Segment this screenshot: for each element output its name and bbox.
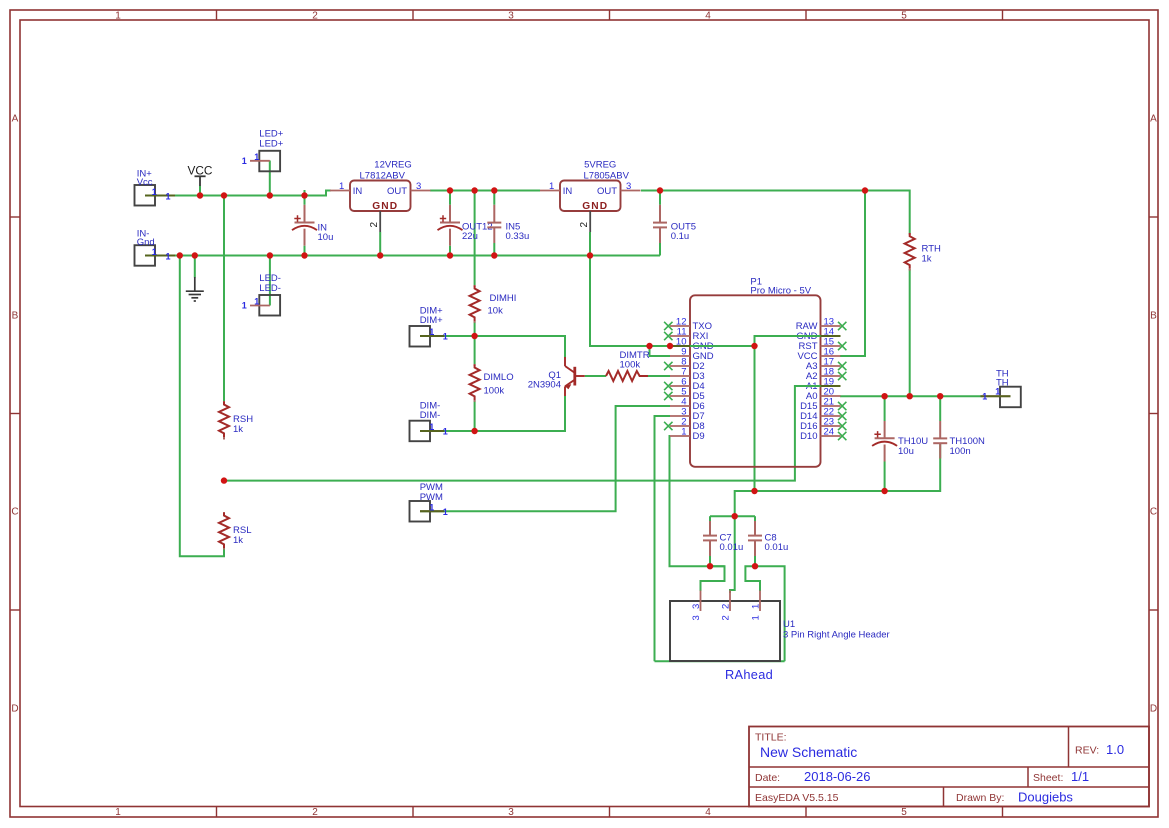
svg-text:2N3904: 2N3904 bbox=[528, 379, 561, 390]
wire over P1 pin19 overlap2 bbox=[821, 385, 841, 387]
svg-text:D9: D9 bbox=[693, 431, 705, 442]
wire net PWM to P1 pin4 D6 bbox=[420, 406, 670, 511]
wire P1 pin9 gnd stub bbox=[650, 346, 671, 356]
svg-text:D: D bbox=[1150, 704, 1157, 715]
resistor RTH 1k bbox=[909, 233, 911, 235]
svg-text:GND: GND bbox=[372, 201, 398, 212]
wire net A0 to TH bbox=[840, 395, 981, 397]
svg-text:2: 2 bbox=[312, 807, 318, 818]
svg-text:A: A bbox=[1150, 114, 1157, 125]
resistor DIMLO 100k bbox=[474, 364, 476, 366]
svg-text:1: 1 bbox=[982, 392, 987, 402]
wire OUT5 cap top stub bbox=[659, 191, 661, 205]
svg-text:VCC: VCC bbox=[188, 164, 213, 178]
wire RSH from Vcc rail bbox=[223, 196, 225, 402]
connector LED+ box bbox=[259, 151, 280, 172]
connector IN- pin 1 bbox=[145, 255, 175, 257]
svg-text:TITLE:: TITLE: bbox=[755, 732, 787, 744]
wire LED+ drop bbox=[269, 161, 271, 196]
svg-text:1: 1 bbox=[443, 332, 448, 342]
wire 5VREG pin2 to rail bbox=[589, 232, 591, 256]
svg-text:10u: 10u bbox=[898, 446, 914, 457]
svg-text:12VREG: 12VREG bbox=[374, 160, 412, 171]
svg-text:1: 1 bbox=[115, 807, 121, 818]
wire TH10U top stub bbox=[884, 396, 886, 421]
wire over P1 pin19 bbox=[821, 385, 841, 387]
svg-text:1k: 1k bbox=[233, 535, 243, 546]
wire C7 C8 top tee bbox=[710, 515, 755, 517]
svg-text:2018-06-26: 2018-06-26 bbox=[804, 769, 871, 784]
wire P1 pin14 gnd through body bbox=[755, 336, 841, 491]
svg-text:100k: 100k bbox=[620, 360, 641, 371]
svg-text:1: 1 bbox=[152, 187, 157, 197]
svg-text:Pro Micro - 5V: Pro Micro - 5V bbox=[750, 286, 811, 297]
svg-text:L7812ABV: L7812ABV bbox=[360, 170, 406, 181]
connector DIM+ pin 1 bbox=[420, 335, 444, 337]
svg-text:Drawn By:: Drawn By: bbox=[956, 792, 1004, 804]
svg-text:2: 2 bbox=[721, 615, 732, 620]
svg-text:1: 1 bbox=[166, 191, 171, 201]
svg-text:1: 1 bbox=[429, 327, 434, 337]
connector PWM pin 1 bbox=[420, 510, 444, 512]
wire over P1 pin19 name bbox=[795, 385, 821, 387]
wire over TH pin bbox=[981, 395, 1011, 397]
svg-text:1: 1 bbox=[429, 502, 434, 512]
wire over P1 pin14 bbox=[821, 335, 841, 337]
connector TH pin 1 bbox=[981, 395, 1011, 397]
svg-text:2: 2 bbox=[312, 10, 318, 21]
svg-text:1: 1 bbox=[254, 297, 259, 307]
wire net D9 down bbox=[670, 436, 725, 566]
wire over DIM+ pin bbox=[420, 335, 444, 337]
svg-text:3: 3 bbox=[508, 10, 514, 21]
voltage regulator 5VREG L7805ABV bbox=[560, 181, 621, 212]
svg-text:B: B bbox=[1150, 311, 1157, 322]
wire IN cap top stub bbox=[304, 190, 306, 205]
svg-text:Sheet:: Sheet: bbox=[1033, 772, 1063, 784]
svg-text:1: 1 bbox=[254, 152, 259, 162]
svg-text:3: 3 bbox=[691, 604, 702, 609]
svg-text:5: 5 bbox=[901, 10, 907, 21]
svg-text:1: 1 bbox=[995, 387, 1000, 397]
wire IN5 cap bottom stub bbox=[493, 243, 495, 256]
svg-text:100n: 100n bbox=[950, 446, 971, 457]
resistor DIMHI 10k bbox=[474, 285, 476, 287]
connector DIM+ box bbox=[410, 326, 431, 347]
svg-text:1: 1 bbox=[751, 604, 762, 609]
voltage regulator 12VREG L7812ABV bbox=[350, 181, 411, 212]
wire DIMTR to P1 pin7 D3 bbox=[648, 375, 670, 377]
svg-text:0.1u: 0.1u bbox=[671, 231, 690, 242]
wire C8 top stub bbox=[754, 516, 756, 521]
svg-text:B: B bbox=[12, 311, 19, 322]
svg-text:1: 1 bbox=[152, 247, 157, 257]
svg-text:DIMLO: DIMLO bbox=[484, 372, 514, 383]
capacitor C7 0.01u bbox=[709, 521, 711, 536]
resistor RSL 1k bbox=[223, 512, 225, 514]
connector PWM box bbox=[410, 501, 431, 522]
svg-text:10k: 10k bbox=[488, 306, 504, 317]
svg-text:3: 3 bbox=[508, 807, 514, 818]
connector IN+ box bbox=[135, 185, 156, 206]
wire C8 to U1 pin1 staircase bbox=[745, 566, 760, 591]
connector LED+ pin 1 bbox=[250, 160, 270, 162]
connector LED- box bbox=[259, 295, 280, 316]
wire net DIM+ to Q1 collector bbox=[420, 336, 565, 358]
svg-text:REV:: REV: bbox=[1075, 745, 1099, 757]
svg-text:D: D bbox=[11, 704, 18, 715]
svg-text:C: C bbox=[11, 507, 18, 518]
svg-text:EasyEDA V5.5.15: EasyEDA V5.5.15 bbox=[755, 792, 839, 804]
svg-text:IN: IN bbox=[563, 186, 573, 197]
connector IN- box bbox=[135, 245, 156, 266]
capacitor IN5 0.33u bbox=[493, 205, 495, 223]
wire net D7 down bbox=[655, 416, 671, 661]
wire 5V to P1 VCC pin16 bbox=[840, 191, 865, 357]
wire over P1 pin14 overlap2 bbox=[821, 335, 841, 337]
svg-text:0.33u: 0.33u bbox=[506, 231, 530, 242]
capacitor TH10U 10u bbox=[884, 421, 886, 438]
wire TH100N top stub bbox=[939, 396, 941, 421]
IC P1 right pins 13..24 bbox=[796, 317, 847, 443]
wire OUT12 cap top stub bbox=[449, 191, 451, 205]
svg-text:1: 1 bbox=[115, 10, 121, 21]
wire ground symbol stub bbox=[194, 256, 196, 278]
wire Q1 base to DIMTR bbox=[585, 375, 606, 377]
wire DIMHI bottom stub bbox=[474, 321, 476, 336]
title block frame bbox=[749, 727, 1149, 807]
svg-text:0.01u: 0.01u bbox=[765, 542, 789, 553]
svg-text:1: 1 bbox=[242, 156, 247, 166]
wire Gnd left drop to RSL bbox=[180, 256, 224, 557]
svg-text:1: 1 bbox=[443, 427, 448, 437]
IC P1 body bbox=[690, 295, 821, 467]
wire 12V to DIMHI vertical bbox=[474, 191, 476, 286]
svg-text:3: 3 bbox=[626, 181, 631, 192]
wire TH10U bottom stub bbox=[884, 462, 886, 492]
svg-text:100k: 100k bbox=[484, 386, 505, 397]
wire over DIM- pin bbox=[420, 430, 444, 432]
svg-text:Dougiebs: Dougiebs bbox=[1018, 790, 1073, 805]
svg-text:Date:: Date: bbox=[755, 772, 780, 784]
wire net 5V rail bbox=[641, 191, 910, 234]
svg-text:4: 4 bbox=[705, 807, 711, 818]
header U1 box bbox=[670, 601, 780, 661]
wire VCC flag stub bbox=[199, 186, 201, 196]
wire LED- drop bbox=[269, 256, 271, 306]
svg-text:4: 4 bbox=[705, 10, 711, 21]
svg-text:C: C bbox=[1150, 507, 1157, 518]
svg-text:DIMHI: DIMHI bbox=[490, 293, 517, 304]
wire over PWM pin bbox=[420, 510, 444, 512]
svg-text:24: 24 bbox=[824, 427, 835, 438]
svg-text:GND: GND bbox=[582, 201, 608, 212]
wire RTH bottom to A0 net bbox=[909, 269, 911, 396]
svg-text:1: 1 bbox=[339, 181, 344, 192]
capacitor TH100N 100n bbox=[939, 421, 941, 438]
svg-text:1: 1 bbox=[751, 615, 762, 620]
ground symbol bbox=[194, 277, 196, 291]
wire over IN+ pin bbox=[145, 195, 175, 197]
wire 12VREG pin2 to rail bbox=[379, 232, 381, 256]
wire OUT5 cap bottom stub bbox=[659, 243, 661, 256]
svg-text:2: 2 bbox=[579, 222, 590, 228]
wire C8 bottom to right vertical bbox=[755, 566, 785, 661]
svg-text:2: 2 bbox=[721, 604, 732, 609]
svg-text:5: 5 bbox=[901, 807, 907, 818]
wire DIMLO top stub bbox=[474, 336, 476, 364]
IC P1 left pins 12..1 bbox=[664, 317, 714, 443]
wire C7 to U1 pin3 staircase bbox=[701, 566, 725, 591]
svg-text:New Schematic: New Schematic bbox=[760, 744, 857, 760]
wire net DIM- to Q1 emitter bbox=[420, 396, 565, 431]
svg-text:OUT: OUT bbox=[597, 186, 617, 197]
wire gnd bottom rail bbox=[735, 444, 941, 517]
svg-text:DIM+: DIM+ bbox=[420, 315, 443, 326]
wire C7 top stub bbox=[709, 516, 711, 521]
wire net Gnd input rail bbox=[145, 255, 660, 257]
wire gnd to U1 pin2 bbox=[730, 516, 735, 593]
svg-text:A: A bbox=[12, 114, 19, 125]
svg-text:L7805ABV: L7805ABV bbox=[584, 170, 630, 181]
connector DIM- box bbox=[410, 421, 431, 442]
capacitor OUT5 0.1u bbox=[659, 205, 661, 223]
header U1 pins 3 2 1 bbox=[691, 591, 762, 621]
svg-text:1: 1 bbox=[429, 422, 434, 432]
svg-text:LED+: LED+ bbox=[259, 139, 283, 150]
wire OUT12 cap bottom stub bbox=[449, 246, 451, 256]
svg-text:3: 3 bbox=[691, 615, 702, 620]
svg-text:1: 1 bbox=[549, 181, 554, 192]
svg-text:PWM: PWM bbox=[420, 492, 443, 503]
wire over P1 pin10 bbox=[670, 345, 690, 347]
svg-text:3: 3 bbox=[416, 181, 421, 192]
svg-text:1: 1 bbox=[681, 427, 686, 438]
wire C8 bottom stub bbox=[754, 556, 756, 566]
capacitor C8 0.01u bbox=[754, 521, 756, 536]
svg-text:0.01u: 0.01u bbox=[720, 542, 744, 553]
svg-text:10u: 10u bbox=[318, 232, 334, 243]
connector DIM- pin 1 bbox=[420, 430, 444, 432]
svg-text:1/1: 1/1 bbox=[1071, 769, 1089, 784]
svg-text:LED-: LED- bbox=[259, 283, 281, 294]
svg-text:IN: IN bbox=[353, 186, 363, 197]
wire over P1 gnd pin10 name bbox=[690, 345, 755, 347]
wire over P1 pin14 name bbox=[755, 335, 821, 337]
transistor Q1 2N3904 bbox=[564, 357, 566, 366]
wire hidden along U1 bottom bbox=[655, 660, 785, 662]
svg-text:1: 1 bbox=[166, 251, 171, 261]
capacitor OUT12 22u bbox=[449, 205, 451, 223]
svg-text:D10: D10 bbox=[800, 431, 817, 442]
wire IN cap bottom stub bbox=[304, 246, 306, 256]
wire GND rail down to P1 pin10 bbox=[590, 256, 755, 347]
connector LED- pin 1 bbox=[250, 305, 270, 307]
svg-text:1k: 1k bbox=[233, 424, 243, 435]
svg-text:1: 1 bbox=[242, 301, 247, 311]
connector IN+ pin 1 bbox=[145, 195, 175, 197]
wire net 12V from regulator out bbox=[430, 190, 540, 192]
svg-text:1k: 1k bbox=[922, 254, 932, 265]
svg-text:1.0: 1.0 bbox=[1106, 742, 1124, 757]
connector TH box bbox=[1000, 387, 1021, 408]
wire net Vcc top rail bbox=[145, 191, 331, 196]
svg-text:OUT: OUT bbox=[387, 186, 407, 197]
wire C7 bottom stub bbox=[709, 556, 711, 566]
svg-text:5VREG: 5VREG bbox=[584, 160, 616, 171]
svg-text:RAhead: RAhead bbox=[725, 667, 773, 682]
wire over IN- pin bbox=[145, 255, 175, 257]
wire IN5 cap top stub bbox=[493, 191, 495, 205]
resistor DIMTR 100k bbox=[606, 371, 648, 381]
wire net A1 divider sense bbox=[224, 386, 840, 481]
resistor RSH 1k bbox=[223, 401, 225, 403]
capacitor IN 10u bbox=[304, 205, 306, 223]
svg-text:22u: 22u bbox=[462, 231, 478, 242]
svg-text:DIM-: DIM- bbox=[420, 410, 441, 421]
wire DIMLO bottom stub bbox=[474, 400, 476, 431]
svg-text:Vcc: Vcc bbox=[137, 177, 153, 188]
svg-text:3 Pin Right Angle Header: 3 Pin Right Angle Header bbox=[783, 629, 890, 640]
svg-text:1: 1 bbox=[443, 507, 448, 517]
svg-text:2: 2 bbox=[369, 222, 380, 228]
